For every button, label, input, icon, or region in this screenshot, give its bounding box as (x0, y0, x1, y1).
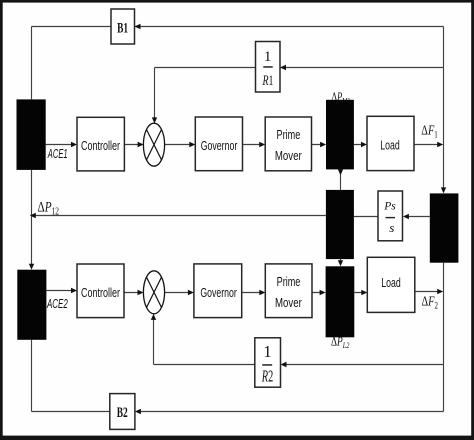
svg-text:Prime: Prime (277, 275, 301, 289)
svg-text:Mover: Mover (275, 149, 302, 163)
svg-text:R2: R2 (261, 367, 273, 386)
svg-text:R1: R1 (262, 73, 274, 89)
svg-text:Load: Load (381, 275, 401, 290)
svg-text:1: 1 (263, 342, 271, 361)
svg-text:Governor: Governor (200, 285, 237, 300)
svg-text:Mover: Mover (275, 296, 302, 310)
svg-text:B1: B1 (117, 20, 128, 36)
svg-text:Load: Load (380, 138, 400, 153)
svg-text:Controller: Controller (81, 285, 120, 300)
svg-text:ACE1: ACE1 (47, 147, 67, 161)
svg-text:Governor: Governor (201, 138, 238, 153)
svg-text:Ps: Ps (383, 201, 396, 213)
svg-text:Controller: Controller (81, 138, 120, 153)
svg-text:s: s (389, 220, 394, 235)
svg-text:1: 1 (264, 49, 272, 65)
svg-text:ACE2: ACE2 (46, 297, 67, 311)
svg-text:Prime: Prime (277, 128, 301, 142)
svg-text:B2: B2 (117, 405, 128, 421)
